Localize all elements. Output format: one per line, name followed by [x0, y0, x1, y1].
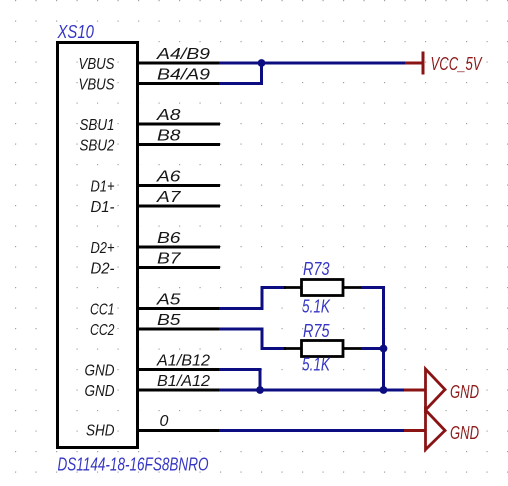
svg-text:B8: B8	[157, 128, 181, 145]
pin B1/A12 (GND)	[85, 373, 221, 400]
wire VBUS to VCC_5V	[219, 62, 406, 65]
pin A7 (D1-)	[91, 189, 221, 216]
power flag VCC_5V	[405, 52, 423, 75]
resistor R75	[284, 341, 362, 357]
junction GND bus	[380, 386, 388, 394]
wire GND A1/B12 down	[219, 370, 260, 391]
ground GND 2	[404, 410, 445, 450]
wire R75 right to GND bus	[361, 347, 384, 350]
svg-text:D1+: D1+	[91, 179, 115, 196]
svg-text:D1-: D1-	[91, 199, 115, 216]
svg-text:R73: R73	[303, 258, 330, 279]
pin A1/B12 (GND)	[85, 353, 221, 380]
svg-text:VBUS: VBUS	[79, 56, 115, 73]
pin 0 (SHD)	[86, 413, 220, 440]
pin B8 (SBU2)	[80, 128, 221, 155]
svg-text:5.1K: 5.1K	[302, 354, 331, 375]
wire GND B1/A12 to ground	[219, 389, 405, 392]
svg-text:CC2: CC2	[90, 322, 115, 339]
resistor R73	[284, 280, 362, 296]
svg-text:R75: R75	[303, 320, 330, 341]
svg-text:D2+: D2+	[91, 240, 115, 257]
svg-text:0: 0	[160, 413, 169, 430]
svg-text:A5: A5	[156, 292, 181, 309]
junction R75/bus	[380, 345, 388, 353]
pin A4/B9 (VBUS)	[79, 46, 221, 73]
svg-text:B4/A9: B4/A9	[157, 67, 210, 84]
svg-text:A6: A6	[156, 169, 181, 186]
svg-text:B6: B6	[157, 230, 181, 247]
svg-text:B7: B7	[157, 251, 182, 268]
svg-text:A7: A7	[156, 189, 182, 206]
svg-text:GND: GND	[85, 363, 115, 380]
svg-text:SBU2: SBU2	[80, 138, 115, 155]
svg-text:GND: GND	[450, 381, 479, 402]
wire CC1 to R73 left	[219, 288, 286, 309]
svg-text:B1/A12: B1/A12	[157, 373, 210, 390]
svg-text:A1/B12: A1/B12	[156, 353, 210, 370]
pin B6 (D2+)	[91, 230, 221, 257]
pin B5 (CC2)	[90, 312, 220, 339]
pin A6 (D1+)	[91, 169, 221, 196]
junction GND A1/B12	[256, 386, 264, 394]
svg-text:GND: GND	[450, 422, 479, 443]
svg-text:D2-: D2-	[91, 261, 115, 278]
svg-text:SBU1: SBU1	[80, 117, 115, 134]
svg-text:5.1K: 5.1K	[302, 296, 331, 317]
pin B4/A9 (VBUS)	[79, 67, 221, 94]
svg-text:XS10: XS10	[57, 21, 95, 42]
svg-text:VBUS: VBUS	[79, 77, 115, 94]
ground GND 1	[404, 369, 445, 410]
wire CC2 to R75 left	[219, 329, 286, 349]
svg-text:A4/B9: A4/B9	[156, 46, 210, 63]
wire VBUS pin2 up to VBUS net	[219, 63, 262, 84]
pin A5 (CC1)	[90, 292, 220, 319]
svg-text:B5: B5	[157, 312, 181, 329]
connector XS10 body	[58, 43, 138, 448]
pin A8 (SBU1)	[80, 107, 221, 134]
svg-text:A8: A8	[156, 107, 181, 124]
wire SHD to ground	[219, 429, 405, 432]
svg-text:SHD: SHD	[86, 423, 115, 440]
svg-text:VCC_5V: VCC_5V	[431, 53, 483, 74]
svg-text:DS1144-18-16FS8BNRO: DS1144-18-16FS8BNRO	[58, 454, 209, 475]
junction VBUS	[258, 59, 266, 67]
wire R73 right to GND bus	[361, 288, 384, 391]
svg-text:CC1: CC1	[90, 302, 115, 319]
svg-text:GND: GND	[85, 383, 115, 400]
pin B7 (D2-)	[91, 251, 221, 278]
